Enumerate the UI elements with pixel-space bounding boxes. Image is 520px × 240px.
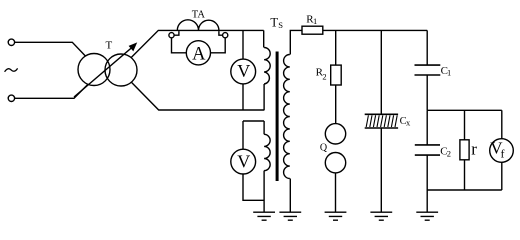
sphere gap Q lower ball — [325, 153, 345, 173]
wire TA terminal right to line — [219, 31, 223, 35]
capacitor C1 — [415, 65, 441, 75]
wire gap to ground — [335, 173, 337, 212]
Ts primary winding — [264, 48, 270, 85]
autotransformer T circle left — [78, 54, 110, 86]
Ts primary top wire — [263, 30, 265, 47]
svg-text:r: r — [471, 140, 477, 159]
HV bus wire — [323, 29, 427, 31]
wire Vf bottom — [501, 162, 503, 190]
wire TA terminal left to line — [174, 31, 179, 35]
wire Cx to ground — [380, 128, 382, 212]
wire tertiary top — [263, 121, 265, 134]
wire input bottom — [15, 84, 88, 98]
resistor R2 — [331, 65, 342, 85]
wire top V branch lower — [242, 84, 244, 110]
bottom return wire — [427, 189, 502, 191]
wire R2 to gap — [335, 85, 337, 124]
Ts secondary winding — [284, 55, 290, 179]
sphere gap Q upper ball — [325, 124, 345, 144]
Ts tertiary winding — [264, 134, 270, 170]
wire top V branch upper — [242, 30, 244, 59]
lower measuring loop top wire — [243, 120, 264, 122]
svg-text:1: 1 — [313, 16, 317, 26]
wire input top — [15, 42, 86, 56]
wire to ground E — [426, 190, 428, 212]
Ts secondary riser — [290, 30, 302, 54]
wire variac output bottom (rail) — [131, 82, 264, 110]
svg-text:1: 1 — [447, 68, 451, 78]
svg-text:f: f — [501, 146, 505, 160]
resistor r branch top — [464, 110, 466, 140]
svg-text:x: x — [406, 118, 411, 128]
wire secondary bottom to ground — [289, 179, 291, 212]
svg-text:T: T — [270, 15, 278, 29]
wire R2 branch top — [335, 30, 337, 65]
resistor r bottom — [464, 160, 466, 190]
ground under Ts primary — [253, 212, 275, 220]
svg-text:T: T — [106, 39, 113, 51]
wire primary bottom to rail — [263, 84, 265, 110]
capacitor C2 — [415, 145, 440, 155]
svg-text:A: A — [192, 44, 206, 64]
TA terminal right — [223, 33, 228, 38]
wire TA left to ammeter — [172, 38, 187, 53]
svg-text:Q: Q — [320, 143, 328, 154]
voltmeter Vf — [490, 139, 514, 163]
svg-text:S: S — [278, 20, 283, 30]
svg-text:V: V — [237, 151, 250, 171]
resistor r — [460, 140, 469, 160]
wire C2 bottom — [426, 155, 428, 190]
node wire to Vf branch — [427, 109, 502, 111]
input terminal bottom — [8, 95, 14, 101]
voltmeter V2 — [231, 149, 256, 174]
wire lower V upper — [242, 121, 244, 149]
AC source symbol ~ — [5, 68, 18, 71]
wire lower V bottom — [243, 174, 264, 200]
svg-text:TA: TA — [192, 9, 206, 20]
ammeter A — [186, 41, 210, 65]
svg-text:2: 2 — [322, 71, 326, 81]
wire C1 branch top — [426, 30, 428, 65]
wire C2 top — [426, 110, 428, 145]
wire Vf branch top — [501, 110, 503, 138]
Cx hatching — [366, 115, 397, 127]
autotransformer T circle right — [105, 54, 137, 86]
svg-text:2: 2 — [447, 149, 451, 159]
ground under C2 — [416, 212, 438, 220]
transformer core — [276, 52, 279, 182]
current transformer TA humps — [177, 20, 219, 31]
test object Cx plates — [365, 114, 398, 128]
TA terminal left — [169, 33, 174, 38]
wire variac output top — [131, 30, 264, 57]
ground under Cx — [370, 212, 392, 220]
wire Cx branch top — [380, 30, 382, 114]
resistor R1 — [302, 26, 323, 34]
wire TA right to ammeter — [211, 38, 226, 53]
wire C1 to node — [426, 75, 428, 110]
voltmeter V1 — [231, 59, 256, 84]
ground under sphere gap — [325, 212, 347, 220]
input terminal top — [8, 39, 14, 45]
wire tertiary bottom to ground — [263, 171, 265, 212]
svg-text:V: V — [237, 61, 250, 81]
variac arrow — [74, 47, 133, 97]
ground under Ts secondary — [279, 212, 301, 220]
